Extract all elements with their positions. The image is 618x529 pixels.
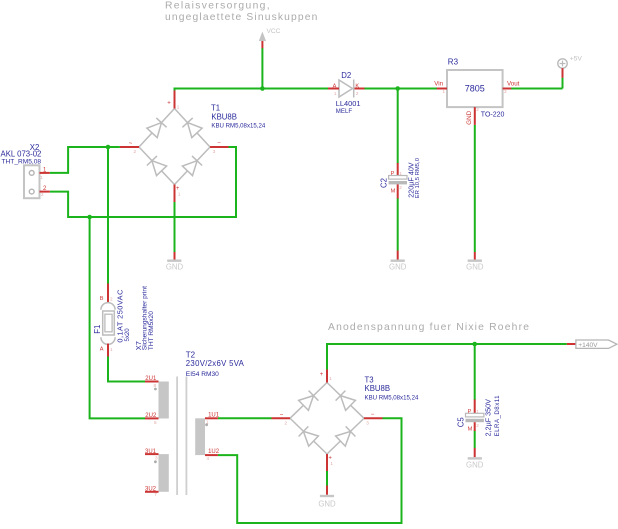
svg-text:−: − bbox=[371, 412, 375, 418]
svg-text:1: 1 bbox=[178, 192, 181, 197]
ground below T3 bbox=[318, 486, 336, 509]
svg-text:2U2: 2U2 bbox=[145, 413, 157, 419]
svg-text:1: 1 bbox=[443, 89, 446, 94]
capacitor C2 bbox=[380, 157, 421, 198]
connector X2 bbox=[1, 143, 50, 198]
supply VCC bbox=[259, 28, 281, 48]
winding 3U bbox=[159, 454, 169, 492]
svg-text:THT RM5x20: THT RM5x20 bbox=[148, 311, 155, 350]
winding 2U bbox=[159, 382, 169, 419]
bridge rectifier T3 bbox=[290, 383, 364, 455]
wire top rail VCC net bbox=[175, 89, 330, 93]
T3 pin ~ left bbox=[272, 417, 291, 419]
svg-text:+: + bbox=[167, 100, 171, 106]
wire C2 branch down bbox=[397, 89, 399, 164]
wire +5V riser bbox=[562, 78, 564, 89]
svg-text:1U1: 1U1 bbox=[208, 412, 220, 418]
junction at VCC drop bbox=[260, 86, 265, 91]
svg-text:MELF: MELF bbox=[336, 108, 353, 115]
svg-text:T3: T3 bbox=[365, 375, 374, 384]
svg-text:5: 5 bbox=[154, 420, 157, 425]
core bbox=[176, 377, 178, 496]
junction 2U2 tap bbox=[87, 215, 92, 220]
svg-text:1: 1 bbox=[399, 171, 402, 176]
svg-text:M: M bbox=[391, 189, 396, 195]
svg-text:ER 10,5 RM5,0: ER 10,5 RM5,0 bbox=[415, 157, 421, 198]
svg-text:GND: GND bbox=[318, 500, 336, 509]
svg-text:7805: 7805 bbox=[465, 83, 485, 93]
diode D2 bbox=[328, 71, 365, 115]
ground below C5 bbox=[466, 448, 484, 470]
svg-text:+: + bbox=[320, 372, 324, 378]
capacitor C5 bbox=[457, 395, 501, 437]
wire 1U2 loop to T3 minus bbox=[218, 418, 402, 523]
junction C5 tap bbox=[472, 342, 477, 347]
svg-text:3: 3 bbox=[504, 89, 507, 94]
svg-text:5x20: 5x20 bbox=[124, 328, 131, 342]
svg-text:LL4001: LL4001 bbox=[336, 99, 361, 108]
T3 pin + top bbox=[326, 370, 328, 383]
svg-text:C5: C5 bbox=[457, 417, 466, 428]
svg-text:ELRA_D8x11: ELRA_D8x11 bbox=[494, 395, 501, 437]
svg-text:2: 2 bbox=[285, 420, 288, 425]
svg-text:2,2µF 350V: 2,2µF 350V bbox=[483, 399, 492, 437]
wire fuse to 2U1 bbox=[108, 356, 145, 382]
svg-text:230V/2x6V 5VA: 230V/2x6V 5VA bbox=[186, 359, 245, 368]
pin 3U1 bbox=[145, 453, 159, 455]
svg-text:KBU8B: KBU8B bbox=[365, 384, 391, 393]
pin 1U1 bbox=[205, 417, 218, 419]
pin 3U2 bbox=[145, 491, 159, 493]
svg-text:+5V: +5V bbox=[570, 56, 583, 63]
transformer T2 bbox=[145, 350, 245, 497]
svg-text:D2: D2 bbox=[341, 71, 351, 80]
bridge rectifier T1 bbox=[139, 109, 210, 185]
wire 1U1 to T3 ~ bbox=[218, 417, 272, 419]
svg-text:KBU8B: KBU8B bbox=[211, 112, 237, 121]
T1 pin + bottom bbox=[174, 185, 176, 203]
svg-text:GND: GND bbox=[466, 461, 484, 470]
T3 pin - right bbox=[364, 417, 383, 419]
svg-text:3: 3 bbox=[213, 149, 216, 154]
svg-text:R3: R3 bbox=[448, 57, 459, 66]
svg-text:VCC: VCC bbox=[267, 28, 281, 35]
supply flag +140V bbox=[567, 340, 617, 349]
svg-text:P: P bbox=[391, 171, 395, 177]
svg-text:8: 8 bbox=[154, 383, 157, 388]
wire X2 pin1 to bridge ~ bbox=[50, 147, 120, 173]
svg-text:ungeglaettete Sinuskuppen: ungeglaettete Sinuskuppen bbox=[165, 12, 319, 23]
svg-text:Relaisversorgung,: Relaisversorgung, bbox=[165, 1, 271, 12]
svg-text:Vout: Vout bbox=[507, 81, 520, 88]
svg-text:2: 2 bbox=[476, 423, 479, 428]
pin 1U2 bbox=[205, 454, 218, 456]
svg-text:A: A bbox=[100, 347, 104, 353]
title Relaisversorgung bbox=[165, 1, 319, 24]
svg-text:2: 2 bbox=[356, 91, 359, 96]
svg-text:1: 1 bbox=[177, 104, 180, 109]
regulator R3 7805 bbox=[434, 57, 519, 125]
svg-text:3: 3 bbox=[155, 455, 158, 460]
wire anode rail bbox=[327, 344, 567, 371]
svg-text:EI54 RM30: EI54 RM30 bbox=[186, 371, 219, 378]
svg-text:3: 3 bbox=[366, 420, 369, 425]
svg-text:~: ~ bbox=[280, 413, 284, 419]
wire T1 bottom to GND bbox=[174, 202, 176, 252]
svg-text:THT_RM5,08: THT_RM5,08 bbox=[2, 159, 42, 166]
svg-text:+140V: +140V bbox=[578, 342, 598, 349]
T3 pin + bottom bbox=[326, 454, 328, 471]
svg-text:4: 4 bbox=[207, 456, 210, 461]
svg-text:Anodenspannung fuer Nixie Roeh: Anodenspannung fuer Nixie Roehre bbox=[328, 322, 530, 333]
svg-text:−: − bbox=[217, 141, 221, 147]
junction fuse tap bbox=[106, 145, 111, 150]
svg-text:3U1: 3U1 bbox=[145, 449, 157, 455]
wire VCC symbol drop bbox=[261, 48, 263, 89]
wire T3 bottom to GND bbox=[326, 471, 328, 486]
svg-text:B: B bbox=[100, 296, 104, 302]
wire R3 GND down bbox=[474, 125, 476, 252]
svg-text:2: 2 bbox=[134, 149, 137, 154]
supply +5V bbox=[558, 56, 583, 78]
svg-text:1: 1 bbox=[476, 409, 479, 414]
svg-text:7: 7 bbox=[154, 492, 157, 497]
wire C2 to GND bbox=[397, 198, 399, 251]
svg-text:1: 1 bbox=[206, 420, 209, 425]
svg-text:KBU RM5,08x15,24: KBU RM5,08x15,24 bbox=[211, 123, 265, 130]
svg-text:GND: GND bbox=[166, 262, 184, 271]
svg-text:GND: GND bbox=[389, 262, 407, 271]
winding 1U bbox=[195, 418, 205, 455]
wire rail after D2 bbox=[364, 88, 563, 90]
svg-text:A: A bbox=[333, 84, 337, 90]
pin 2U2 bbox=[145, 417, 159, 419]
svg-text:2U1: 2U1 bbox=[145, 376, 157, 382]
svg-text:GND: GND bbox=[466, 262, 484, 271]
svg-text:T1: T1 bbox=[211, 103, 220, 112]
svg-text:1: 1 bbox=[330, 461, 333, 466]
ground below T1 bbox=[166, 252, 184, 271]
svg-text:KBU RM5,08x15,24: KBU RM5,08x15,24 bbox=[365, 394, 419, 401]
svg-text:P: P bbox=[468, 409, 472, 415]
svg-text:GND: GND bbox=[466, 110, 473, 124]
svg-text:M: M bbox=[468, 427, 473, 433]
svg-text:AKL 073-02: AKL 073-02 bbox=[1, 149, 42, 158]
svg-text:Vin: Vin bbox=[434, 81, 443, 88]
T1 pin + top bbox=[174, 91, 176, 109]
svg-text:~: ~ bbox=[129, 141, 133, 147]
svg-text:TO-220: TO-220 bbox=[481, 112, 505, 119]
ground below C2 bbox=[389, 251, 407, 272]
svg-text:2: 2 bbox=[399, 185, 402, 190]
wire C5 to GND bbox=[474, 431, 476, 449]
fuse F1 with holder X7 bbox=[93, 284, 155, 357]
svg-text:2: 2 bbox=[41, 192, 44, 197]
pin 2U1 bbox=[145, 381, 159, 383]
junction at C2 branch bbox=[395, 86, 400, 91]
wire down to fuse F1 bbox=[107, 147, 109, 284]
svg-text:1: 1 bbox=[334, 91, 337, 96]
T1 pin ~ left bbox=[120, 146, 139, 148]
wire down to 2U2 bbox=[90, 217, 145, 418]
svg-text:1: 1 bbox=[40, 175, 43, 180]
wire X2 pin2 to bridge minus bbox=[50, 147, 236, 217]
svg-text:1: 1 bbox=[329, 376, 332, 381]
svg-text:1U2: 1U2 bbox=[208, 449, 220, 455]
wire C5 branch down bbox=[474, 344, 476, 400]
ground below R3 bbox=[466, 252, 484, 271]
T1 pin - right bbox=[210, 146, 229, 148]
svg-text:1: 1 bbox=[110, 347, 113, 352]
svg-text:F1: F1 bbox=[93, 325, 102, 334]
svg-text:C2: C2 bbox=[380, 178, 389, 188]
svg-text:2: 2 bbox=[476, 107, 479, 112]
phase dots bbox=[154, 388, 157, 391]
svg-text:2: 2 bbox=[110, 297, 113, 302]
svg-text:K: K bbox=[355, 84, 359, 90]
